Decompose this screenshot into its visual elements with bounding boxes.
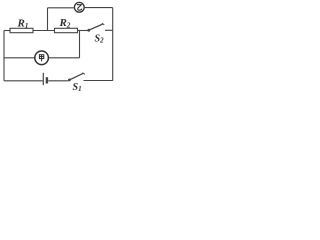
wire right vertical <box>112 8 114 81</box>
wire bottom: battery to S1 segment <box>48 80 68 82</box>
switch S1 contact tick <box>83 73 85 75</box>
wire top: corner to meter yi <box>48 7 74 9</box>
battery short plate <box>46 77 48 83</box>
wire left vertical <box>3 31 5 81</box>
battery long plate <box>42 73 44 85</box>
wire main row: S2 to right vertical <box>105 29 113 31</box>
wire branch vertical to meter yi loop <box>47 8 49 31</box>
wire bottom: S1 to right corner segment <box>84 80 113 82</box>
meter yi symbol 乙 <box>77 5 82 11</box>
wire branch vertical to meter jia <box>79 31 81 58</box>
meter jia symbol 甲 <box>39 55 43 62</box>
meter jia (circle) <box>35 51 49 65</box>
wire top: meter yi to right corner <box>85 7 113 9</box>
meter yi (circle) <box>74 2 84 12</box>
wire main row: left stub to R1 <box>4 30 10 32</box>
resistor R2 <box>55 28 78 32</box>
switch S1 pivot dot <box>68 79 71 82</box>
wire middle row: meter jia to branch vertical <box>49 57 80 59</box>
wire middle row: left vertical to meter jia <box>4 57 34 59</box>
wire main row: R1 to R2 <box>33 30 55 32</box>
wire main row: R2 to S2 pivot <box>78 30 89 32</box>
wire bottom: battery-left segment <box>4 80 43 82</box>
switch S2 pivot dot <box>87 29 90 32</box>
resistor R1 <box>10 28 33 32</box>
switch S2 contact tick <box>102 23 104 25</box>
switch S1 blade <box>69 73 83 80</box>
switch S2 blade <box>89 24 103 30</box>
